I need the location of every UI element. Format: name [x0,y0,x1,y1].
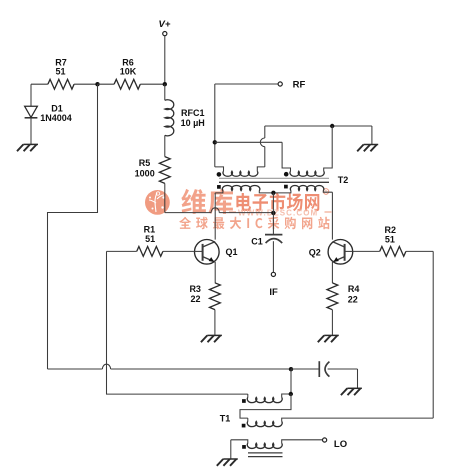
wire center tap down to C1 [272,193,274,234]
wire T2 top horizontal to ground [265,125,372,127]
svg-text:1000: 1000 [135,169,155,179]
transformer T1 middle winding [247,418,249,421]
wire capacitor to ground [357,369,359,388]
svg-text:T2: T2 [338,175,349,185]
ground for T2 top [364,144,379,146]
phase square T2 bottom-right [284,185,288,189]
diode D1 [25,106,38,117]
resistor R7 [31,83,48,85]
wire T2 crossover horizontal [215,141,282,143]
svg-text:1N4004: 1N4004 [40,113,72,123]
wire C1 to IF terminal [272,241,274,272]
node T2 top-right junction [330,124,334,128]
svg-text:22: 22 [348,295,358,305]
svg-text:51: 51 [385,235,395,245]
watermark [145,189,332,230]
svg-text:R3: R3 [189,284,201,294]
resistor R3 [210,283,221,310]
svg-text:Q2: Q2 [309,248,321,258]
svg-text:RF: RF [293,80,306,91]
phase square T1 middle [242,424,246,428]
wire Q2 emitter to R4 [331,262,333,283]
ground for R4 [324,334,339,336]
resistor R4 [327,283,338,310]
transistor Q2 [328,240,353,265]
wire R7 to D1 anode [30,84,32,106]
node T2 top-left rail junction [213,140,217,144]
phase square T2 bottom-left [217,185,221,189]
svg-text:10K: 10K [120,66,137,76]
svg-text:R5: R5 [139,158,151,168]
svg-text:Q1: Q1 [225,247,237,257]
ground for T1 secondary [223,458,238,460]
wire R1 rail down to T1 top winding [107,251,248,394]
transformer T1 core upper line [248,452,283,454]
svg-text:C1: C1 [251,236,263,246]
resistor R2 [353,250,380,252]
svg-text:22: 22 [190,294,200,304]
node R6/RFC1/V+ junction [163,82,167,86]
node T1 top-right junction [289,392,293,396]
wire D1 cathode to ground [30,118,32,144]
wire V+ down to R6/RFC1 node [164,36,166,84]
terminal LO [323,438,327,442]
wire T2 bottom-left to Q1 collector [214,193,216,240]
transformer T2 bottom-right winding [273,191,291,193]
svg-text:10 µH: 10 µH [181,118,205,128]
svg-text:51: 51 [55,66,65,76]
ground for D1 [23,143,38,145]
svg-text:D1: D1 [51,103,63,113]
wire T2 bottom-right to Q2 collector [331,192,333,239]
svg-text:LO: LO [334,439,347,450]
resistor R5 [159,157,170,184]
svg-text:IF: IF [269,287,278,298]
wire R5 to T2 center tap with hop over Q1 collector [165,212,211,214]
phase square T1 top [242,399,246,403]
wire right rail R2 to T1 middle [432,251,434,418]
ground for bottom capacitor [347,387,362,389]
resistor R6 [98,83,115,85]
node T2 center tap [271,191,275,195]
transformer T2 top-left winding [214,142,216,167]
terminal IF [271,272,275,276]
ground for R3 [207,334,222,336]
svg-text:RFC1: RFC1 [181,108,205,118]
svg-text:R4: R4 [348,284,360,294]
node R7/R6 junction [95,82,99,86]
inductor RFC1 [164,84,166,100]
capacitor bottom coupling [291,368,319,370]
transformer T2 core lower line [219,181,329,183]
capacitor C1 [265,234,282,236]
svg-text:T1: T1 [220,413,231,423]
transformer T1 core lower line [248,456,283,458]
wire RF line [215,83,278,85]
svg-text:51: 51 [145,234,155,244]
terminal V+ [163,31,167,35]
transformer T1 bottom winding [231,440,248,443]
wire T2 crossover vertical with hop [264,147,266,167]
resistor R1 [107,250,137,252]
phase square T1 bottom [242,445,246,449]
wire bottom rail with hop over R1 rail [48,368,103,370]
wire T1 jog to middle winding [240,394,291,418]
svg-text:V+: V+ [159,19,171,30]
wire T1 bottom-left to ground [230,440,232,459]
node bottom rail / T1 vertical [289,367,293,371]
transformer T2 core upper line [219,177,329,179]
phase dot T2 top-left [217,172,222,177]
transformer T2 top-right winding [290,171,324,176]
transformer T1 top winding [247,394,249,397]
terminal RF [278,82,282,86]
transistor Q1 [195,240,220,265]
wire left rail from R7/R6 node down and across [48,84,98,369]
transformer T2 bottom-left winding [215,191,223,193]
wire T1 vertical feed [290,369,292,394]
node R5 line joins C1/center-tap [271,211,275,215]
phase dot T2 top-right [284,172,289,177]
wire Q1 emitter to R3 [214,262,216,283]
